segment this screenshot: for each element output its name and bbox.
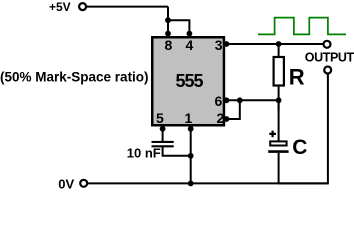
capacitor C bottom plate: [268, 150, 288, 153]
OUTPUT terminal bottom: [324, 67, 331, 74]
wire +5V horizontal: [87, 6, 168, 8]
junction dot rail: [188, 181, 194, 187]
wire pins 6/2 to RC node: [224, 99, 279, 101]
pin dot 6: [224, 97, 230, 103]
junction dot R/C node: [276, 97, 282, 103]
capacitor C top plate: [270, 141, 286, 145]
wire resistor bottom: [278, 86, 280, 111]
wire loop junction to pin 4: [168, 20, 189, 36]
svg-text:+5V: +5V: [49, 0, 71, 14]
pin dot 4: [187, 31, 193, 37]
pin dot 8: [165, 31, 171, 37]
wire RC node down to capacitor C: [278, 100, 280, 141]
+5V terminal: [79, 3, 86, 10]
wire pin 1 down to 0V rail: [190, 126, 192, 183]
svg-text:4: 4: [186, 37, 194, 53]
capacitor 10nF bottom plate: [152, 145, 174, 147]
svg-text:C: C: [292, 136, 307, 159]
wire pin3 node down to resistor: [278, 44, 280, 57]
0V rail: [88, 182, 328, 184]
svg-text:3: 3: [215, 37, 223, 53]
wire pin 2 loop: [224, 100, 240, 119]
svg-text:5: 5: [156, 110, 164, 126]
+ polarity mark: [269, 131, 276, 138]
OUTPUT terminal top: [324, 41, 331, 48]
junction dot cap/pin1: [188, 153, 194, 159]
svg-text:8: 8: [165, 37, 173, 53]
pin dot 2: [224, 116, 230, 122]
wire capacitor to 0V rail: [278, 153, 280, 184]
svg-text:0V: 0V: [58, 176, 74, 191]
pin dot 5: [160, 126, 166, 132]
wire 10nF to pin1 wire: [163, 146, 191, 156]
pin 3 wire to output: [224, 43, 323, 45]
0V terminal: [80, 180, 87, 187]
pin dot 3: [224, 41, 230, 47]
junction dot supply: [165, 17, 171, 23]
svg-text:(50% Mark-Space ratio): (50% Mark-Space ratio): [0, 70, 149, 85]
resistor R: [274, 57, 284, 86]
svg-text:1: 1: [185, 110, 193, 126]
IC U1 555 timer body: [152, 37, 224, 125]
wire +5V down to pin 8: [167, 7, 169, 36]
svg-text:R: R: [289, 65, 305, 90]
wire pin 5 down to 10nF cap: [162, 126, 164, 142]
pin dot 1: [188, 126, 194, 132]
svg-text:555: 555: [176, 71, 204, 91]
svg-text:6: 6: [215, 93, 223, 109]
wire output return down right side: [279, 74, 328, 183]
output waveform (green square wave): [258, 18, 346, 35]
svg-text:2: 2: [217, 110, 225, 126]
svg-text:OUTPUT: OUTPUT: [305, 51, 354, 65]
junction dot pin6 wire: [237, 97, 243, 103]
junction dot output/resistor: [276, 41, 282, 47]
svg-text:10 nF: 10 nF: [127, 146, 161, 161]
capacitor 10nF top plate: [152, 141, 174, 143]
